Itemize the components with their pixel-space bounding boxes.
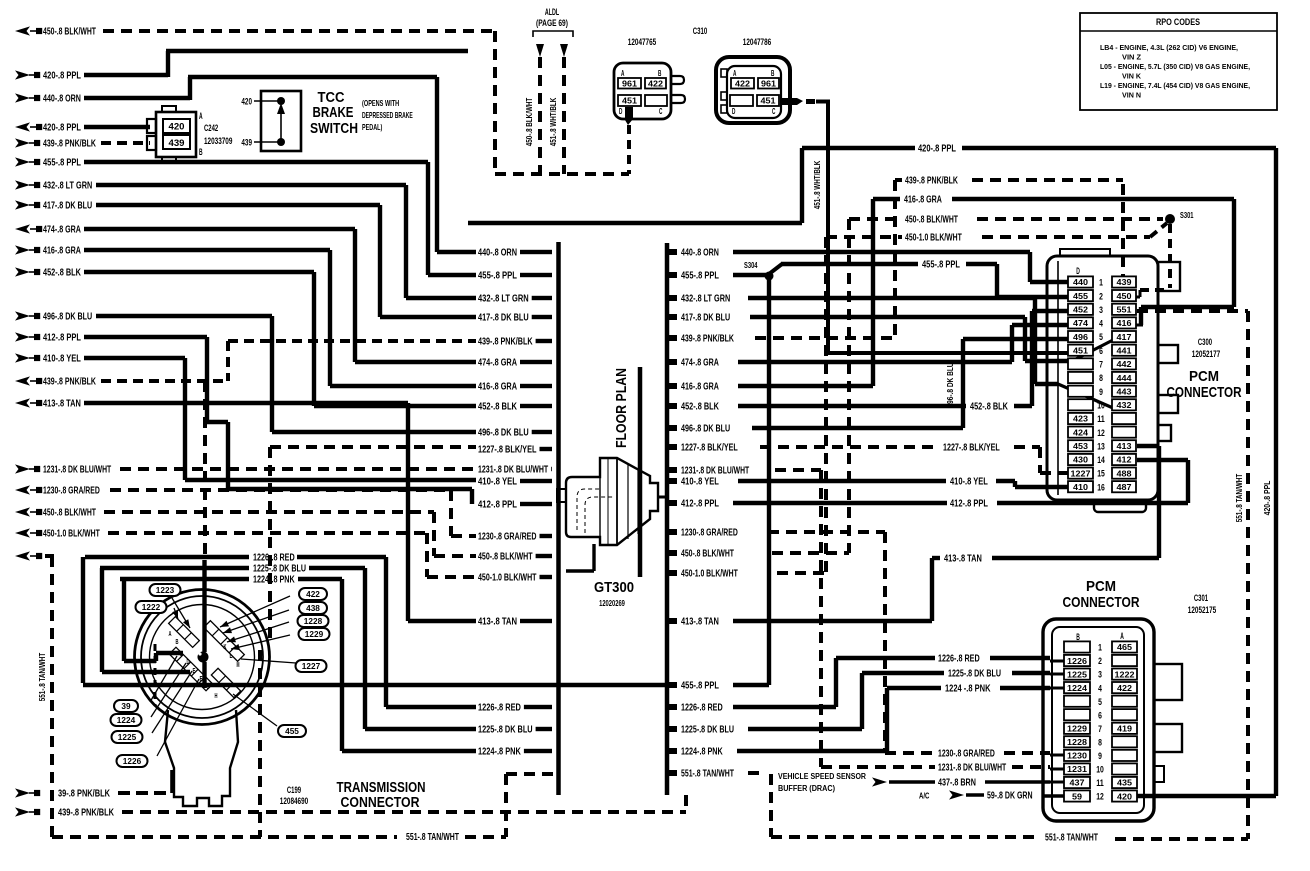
- svg-text:416-.8 GRA: 416-.8 GRA: [681, 382, 719, 393]
- svg-text:474: 474: [1073, 318, 1088, 328]
- svg-text:551: 551: [1117, 305, 1132, 315]
- svg-text:435: 435: [1117, 778, 1132, 788]
- svg-text:1224 -.8 PNK: 1224 -.8 PNK: [945, 684, 991, 695]
- wire 440-.8 ORN left entry: [15, 77, 476, 252]
- left bus label 440-.8 ORN: [478, 248, 552, 259]
- oval 455: [233, 694, 306, 737]
- svg-text:496-.8 DK BLU: 496-.8 DK BLU: [681, 424, 730, 435]
- floor plan divider line: [638, 367, 643, 577]
- svg-text:C301: C301: [1194, 593, 1208, 603]
- svg-text:1222: 1222: [142, 603, 161, 612]
- svg-text:1231-.8 DK BLU/WHT: 1231-.8 DK BLU/WHT: [938, 763, 1006, 774]
- transmission center terminal: [198, 652, 209, 663]
- left bus label 450-.8 BLK/WHT: [478, 552, 552, 563]
- svg-text:450-1.0 BLK/WHT: 450-1.0 BLK/WHT: [905, 233, 962, 244]
- left bus label 1227-.8 BLK/YEL: [478, 445, 552, 456]
- svg-text:1225-.8 DK BLU: 1225-.8 DK BLU: [681, 725, 734, 736]
- wire 474-.8 GRA to C300 pin 4: [738, 325, 1068, 362]
- wire 416-.8 GRA left entry: [15, 245, 476, 386]
- svg-text:420-.8 PPL: 420-.8 PPL: [43, 123, 81, 134]
- transmission connector circles: [135, 590, 270, 725]
- svg-text:455-.8 PPL: 455-.8 PPL: [681, 681, 719, 692]
- svg-text:5: 5: [1098, 697, 1102, 708]
- svg-text:3: 3: [1099, 305, 1103, 316]
- ALDL header and bracket: [533, 7, 573, 37]
- svg-text:12084690: 12084690: [280, 796, 308, 806]
- right bus label 1230-.8 GRA/RED: [669, 528, 738, 539]
- svg-text:1229: 1229: [1067, 724, 1087, 734]
- left harness bus line: [556, 242, 561, 795]
- svg-text:12047786: 12047786: [743, 37, 771, 47]
- wire 452-.8 BLK to C300 pin 3: [738, 311, 1068, 413]
- svg-text:410: 410: [1073, 482, 1088, 492]
- svg-text:TCC: TCC: [318, 90, 345, 106]
- wire A/C to C301 pin 12: [919, 790, 1064, 801]
- svg-text:1231-.8 DK BLU/WHT: 1231-.8 DK BLU/WHT: [43, 465, 111, 476]
- svg-text:A/C: A/C: [919, 791, 929, 801]
- svg-text:2: 2: [1099, 291, 1103, 302]
- svg-text:2: 2: [1098, 656, 1102, 667]
- bottom dashed bus 551-.8 TAN/WHT right segment: [771, 311, 1248, 844]
- svg-text:450-1.0 BLK/WHT: 450-1.0 BLK/WHT: [43, 529, 100, 540]
- wire 474-.8 GRA left entry: [15, 224, 476, 362]
- svg-text:12020269: 12020269: [599, 599, 625, 608]
- svg-text:11: 11: [1097, 414, 1105, 425]
- right bus label 413-.8 TAN: [669, 617, 719, 628]
- svg-text:1231-.8 DK BLU/WHT: 1231-.8 DK BLU/WHT: [478, 465, 548, 476]
- svg-text:432-.8 LT GRN: 432-.8 LT GRN: [681, 294, 730, 305]
- svg-text:452: 452: [1073, 305, 1088, 315]
- svg-text:14: 14: [1097, 455, 1105, 466]
- wire 413-.8 TAN to C300 pin 13R: [733, 446, 1159, 621]
- svg-text:VIN K: VIN K: [1122, 72, 1142, 81]
- svg-text:1224-.8 PNK: 1224-.8 PNK: [681, 747, 723, 758]
- wire 1225-.8 DK BLU to C301 pin 3: [748, 669, 1064, 730]
- wire 452-.8 BLK left entry: [15, 267, 476, 406]
- svg-text:551-.8 TAN/WHT: 551-.8 TAN/WHT: [37, 652, 47, 701]
- svg-text:410-.8 YEL: 410-.8 YEL: [681, 477, 719, 488]
- svg-text:412-.8 PPL: 412-.8 PPL: [681, 499, 719, 510]
- left bus label 410-.8 YEL: [478, 477, 552, 488]
- svg-text:4: 4: [1098, 683, 1102, 694]
- svg-text:455-.8 PPL: 455-.8 PPL: [922, 260, 960, 271]
- right bus label 410-.8 YEL: [669, 477, 719, 488]
- svg-text:440-.8 ORN: 440-.8 ORN: [43, 94, 81, 105]
- svg-text:F: F: [200, 674, 203, 683]
- svg-text:450: 450: [1117, 291, 1132, 301]
- svg-text:12: 12: [1097, 428, 1105, 439]
- right bus label 496-.8 DK BLU: [669, 424, 730, 435]
- wire 39-.8 PNK/BLK bottom entry: [15, 770, 172, 800]
- svg-text:438: 438: [306, 604, 320, 613]
- svg-text:451-.8 WHT/BLK: 451-.8 WHT/BLK: [548, 97, 558, 146]
- wire S301 to C300 pin 2R 450 (dashed): [1136, 224, 1170, 297]
- svg-text:6: 6: [1098, 710, 1102, 721]
- svg-text:450-.8 BLK/WHT: 450-.8 BLK/WHT: [43, 27, 96, 38]
- svg-text:7: 7: [1099, 360, 1103, 371]
- svg-text:410-.8 YEL: 410-.8 YEL: [43, 354, 81, 365]
- oval 39: [114, 656, 177, 712]
- svg-text:PCM: PCM: [1189, 368, 1219, 385]
- svg-text:452-.8 BLK: 452-.8 BLK: [970, 402, 1008, 413]
- left bus label 1230-.8 GRA/RED: [478, 532, 552, 543]
- svg-text:59-.8 DK GRN: 59-.8 DK GRN: [987, 791, 1033, 802]
- svg-text:465: 465: [1117, 642, 1132, 652]
- svg-text:1228: 1228: [1067, 737, 1087, 747]
- svg-text:439-.8 PNK/BLK: 439-.8 PNK/BLK: [905, 176, 958, 187]
- oval 1229: [231, 628, 330, 650]
- svg-text:L19 - ENGINE, 7.4L (454 CID) V: L19 - ENGINE, 7.4L (454 CID) V8 GAS ENGI…: [1100, 81, 1250, 90]
- left bus label 413-.8 TAN: [478, 617, 552, 628]
- svg-text:417: 417: [1117, 332, 1132, 342]
- wire 413-.8 TAN left entry: [15, 398, 476, 621]
- svg-text:488: 488: [1117, 468, 1132, 478]
- svg-text:450-.8 BLK/WHT: 450-.8 BLK/WHT: [905, 215, 958, 226]
- svg-text:474-.8 GRA: 474-.8 GRA: [478, 358, 517, 369]
- GT300 drain wire elbow: [566, 544, 594, 571]
- svg-text:C: C: [772, 106, 775, 116]
- svg-text:GT300: GT300: [594, 580, 634, 596]
- svg-text:961: 961: [761, 80, 776, 89]
- oval 1228: [227, 615, 329, 642]
- svg-text:442: 442: [1117, 359, 1132, 369]
- right bus label 551-.8 TAN/WHT: [669, 769, 734, 780]
- svg-text:M: M: [237, 660, 240, 669]
- svg-text:39: 39: [121, 702, 131, 711]
- ALDL pigtail 450-.8 BLK/WHT (dashed): [536, 44, 544, 174]
- svg-text:439-.8 PNK/BLK: 439-.8 PNK/BLK: [43, 377, 96, 388]
- connector C300 body: [1047, 249, 1180, 512]
- svg-text:13: 13: [1097, 441, 1105, 452]
- splice S301: [1165, 210, 1194, 224]
- svg-text:413-.8 TAN: 413-.8 TAN: [478, 617, 517, 628]
- right bus label 416-.8 GRA: [669, 382, 719, 393]
- wire 1227-.8 BLK/YEL to C300 pin 15 (dashed): [760, 443, 1068, 474]
- svg-text:419: 419: [1117, 724, 1132, 734]
- right bus label 440-.8 ORN: [669, 248, 719, 259]
- svg-text:450-.8 BLK/WHT: 450-.8 BLK/WHT: [524, 97, 534, 146]
- left bus label 496-.8 DK BLU: [478, 428, 552, 439]
- svg-text:440-.8 ORN: 440-.8 ORN: [681, 248, 719, 259]
- svg-text:413-.8 TAN: 413-.8 TAN: [681, 617, 719, 628]
- svg-text:1226: 1226: [123, 757, 142, 766]
- svg-text:D: D: [187, 657, 190, 666]
- TCC brake switch: [241, 91, 301, 151]
- oval 1227: [241, 659, 327, 672]
- wire S304 drop to 455 row: [767, 278, 771, 685]
- left bus label 1224-.8 PNK: [478, 747, 552, 758]
- svg-text:1224: 1224: [1067, 683, 1087, 693]
- svg-text:PEDAL): PEDAL): [362, 122, 382, 132]
- dashed hint inside transmission: [154, 644, 157, 706]
- label C199 12084690: [280, 785, 308, 806]
- left bus label 450-1.0 BLK/WHT: [478, 573, 552, 584]
- wire 496-.8 DK BLU left entry: [15, 311, 476, 432]
- svg-text:410-.8 YEL: 410-.8 YEL: [950, 477, 988, 488]
- svg-text:C310: C310: [693, 26, 708, 36]
- right bus label 1225-.8 DK BLU: [669, 725, 734, 736]
- svg-text:1227-.8 BLK/YEL: 1227-.8 BLK/YEL: [478, 445, 537, 456]
- svg-text:6: 6: [1099, 346, 1103, 357]
- svg-text:1225-.8 DK BLU: 1225-.8 DK BLU: [253, 564, 306, 575]
- wire 1230-.8 GRA/RED down to C301 pin 9 (dashed): [768, 532, 1064, 760]
- svg-text:417-.8 DK BLU: 417-.8 DK BLU: [478, 313, 529, 324]
- svg-text:1226: 1226: [1067, 656, 1087, 666]
- label GT300 12020269: [594, 580, 634, 608]
- svg-text:E: E: [193, 666, 196, 675]
- svg-text:1230: 1230: [1067, 751, 1087, 761]
- svg-text:420: 420: [1117, 791, 1132, 801]
- transmission pin strip A-B: [169, 617, 200, 648]
- svg-text:455: 455: [1073, 291, 1088, 301]
- svg-text:453: 453: [1073, 441, 1088, 451]
- svg-text:12047765: 12047765: [628, 37, 656, 47]
- svg-text:451: 451: [622, 97, 637, 106]
- wire 496-.8 DK BLU to C300 pin 5: [752, 339, 1068, 428]
- svg-text:422: 422: [306, 590, 320, 599]
- svg-text:961: 961: [622, 80, 637, 89]
- wire 439-.8 PNK/BLK bottom entry (dashed): [15, 795, 686, 819]
- svg-text:8: 8: [1099, 373, 1103, 384]
- wire 420-.8 PPL left entry: [15, 51, 468, 82]
- svg-text:FLOOR PLAN: FLOOR PLAN: [613, 368, 630, 448]
- svg-text:10: 10: [1097, 400, 1105, 411]
- left bus label 1226-.8 RED: [478, 703, 552, 714]
- svg-text:1227: 1227: [1071, 468, 1091, 478]
- svg-text:417-.8 DK BLU: 417-.8 DK BLU: [681, 313, 730, 324]
- wire 410-.8 YEL left entry: [15, 353, 476, 480]
- svg-text:B: B: [176, 637, 179, 646]
- svg-text:16: 16: [1097, 482, 1105, 493]
- svg-text:416: 416: [1117, 318, 1132, 328]
- svg-text:K: K: [224, 642, 227, 651]
- left bus label 417-.8 DK BLU: [478, 313, 552, 324]
- svg-text:443: 443: [1117, 386, 1132, 396]
- svg-text:1225-.8 DK BLU: 1225-.8 DK BLU: [478, 725, 533, 736]
- svg-text:12033709: 12033709: [204, 136, 232, 146]
- svg-text:437-.8 BRN: 437-.8 BRN: [938, 778, 976, 789]
- wire 551-.8 TAN/WHT to bottom bus (dashed): [748, 773, 771, 837]
- svg-text:1228: 1228: [304, 617, 323, 626]
- svg-text:412-.8 PPL: 412-.8 PPL: [950, 499, 988, 510]
- left bus label 455-.8 PPL: [478, 271, 552, 282]
- svg-text:1227-.8 BLK/YEL: 1227-.8 BLK/YEL: [681, 443, 738, 454]
- right bus label 1224-.8 PNK: [669, 747, 723, 758]
- svg-text:496-.8 DK BLU: 496-.8 DK BLU: [43, 312, 92, 323]
- label TRANSMISSION CONNECTOR: [337, 780, 426, 811]
- bottom dashed bus 551-.8 TAN/WHT left segment: [52, 774, 556, 843]
- svg-text:1230-.8 GRA/RED: 1230-.8 GRA/RED: [938, 749, 995, 760]
- svg-text:B: B: [771, 68, 774, 78]
- svg-text:1227: 1227: [302, 662, 321, 671]
- oval 1222: [136, 601, 179, 619]
- wire 410-.8 YEL to C300 pin 16: [738, 477, 1068, 488]
- svg-text:A: A: [199, 111, 203, 121]
- right bus label 417-.8 DK BLU: [669, 313, 730, 324]
- svg-text:420: 420: [241, 97, 252, 107]
- transmission pin strip K-L-M: [204, 621, 245, 662]
- connector C301 pin rows: [1064, 641, 1137, 802]
- svg-text:C300: C300: [1198, 337, 1212, 347]
- right bus label 474-.8 GRA: [669, 358, 719, 369]
- svg-text:439: 439: [1117, 277, 1132, 287]
- transmission connector bell body: [165, 710, 238, 806]
- wire 439-.8 PNK/BLK left entry (dashed): [15, 341, 476, 388]
- wire 450-.8 BLK/WHT left entry (dashed): [15, 507, 476, 556]
- svg-text:BUFFER (DRAC): BUFFER (DRAC): [778, 783, 835, 793]
- svg-text:444: 444: [1117, 373, 1132, 383]
- wire 1230-.8 GRA/RED left entry (dashed): [15, 485, 476, 536]
- label (OPENS WITH DEPRESSED BRAKE PEDAL): [362, 98, 413, 132]
- svg-text:422: 422: [1117, 683, 1132, 693]
- wire 1231-.8 DK BLU/WHT left entry (dashed): [15, 464, 476, 475]
- svg-text:RPO CODES: RPO CODES: [1156, 17, 1200, 27]
- svg-text:S301: S301: [1180, 210, 1194, 220]
- right bus label 452-.8 BLK: [669, 402, 719, 413]
- wire 417-.8 DK BLU to C300 diag pin 5R 417: [750, 317, 1113, 361]
- svg-text:412-.8 PPL: 412-.8 PPL: [43, 333, 81, 344]
- left bus label 1231-.8 DK BLU/WHT: [478, 465, 552, 476]
- svg-text:S304: S304: [744, 260, 758, 270]
- svg-text:437: 437: [1070, 778, 1085, 788]
- connector 12047786: [716, 37, 815, 123]
- wire 1225-.8 DK BLU hook: [100, 564, 476, 730]
- right bus label 450-.8 BLK/WHT: [669, 549, 734, 560]
- svg-text:455-.8 PPL: 455-.8 PPL: [681, 271, 719, 282]
- svg-text:450-.8 BLK/WHT: 450-.8 BLK/WHT: [681, 549, 734, 560]
- svg-text:439-.8 PNK/BLK: 439-.8 PNK/BLK: [58, 808, 114, 819]
- svg-text:CONNECTOR: CONNECTOR: [1063, 594, 1140, 611]
- svg-text:B: B: [658, 68, 661, 78]
- wire 432-.8 LT GRN to C300 diag pin 10R 432: [748, 298, 1113, 408]
- wire drop into transmission center: [202, 381, 207, 688]
- wire 439-.8 PNK/BLK to C242 pin 439 (dashed): [15, 138, 150, 149]
- svg-text:VIN N: VIN N: [1122, 91, 1141, 100]
- splice S304 and wire 455-.8 PPL to C300 pin 2: [733, 260, 1068, 298]
- svg-text:D: D: [619, 106, 622, 116]
- svg-text:1225: 1225: [118, 733, 137, 742]
- svg-text:450-1.0 BLK/WHT: 450-1.0 BLK/WHT: [478, 573, 537, 584]
- svg-text:413-.8 TAN: 413-.8 TAN: [43, 399, 81, 410]
- svg-text:12052175: 12052175: [1188, 605, 1216, 615]
- svg-text:9: 9: [1098, 751, 1102, 762]
- svg-text:1231-.8 DK BLU/WHT: 1231-.8 DK BLU/WHT: [681, 466, 749, 477]
- svg-text:423: 423: [1073, 414, 1088, 424]
- svg-text:432: 432: [1117, 400, 1132, 410]
- svg-text:39-.8 PNK/BLK: 39-.8 PNK/BLK: [58, 789, 110, 800]
- right bus label 455-.8 PPL: [669, 271, 719, 282]
- svg-text:452-.8 BLK: 452-.8 BLK: [681, 402, 719, 413]
- wire 412-.8 PPL to C300 pin 14R: [733, 460, 1188, 510]
- svg-text:450-.8 BLK/WHT: 450-.8 BLK/WHT: [43, 508, 96, 519]
- svg-text:H: H: [215, 691, 218, 700]
- ALDL pigtail 451-.8 WHT/BLK (dashed): [560, 44, 568, 174]
- oval 1223: [150, 584, 191, 628]
- svg-text:551-.8 TAN/WHT: 551-.8 TAN/WHT: [406, 832, 459, 843]
- svg-text:1226-.8 RED: 1226-.8 RED: [681, 703, 723, 714]
- svg-text:439-.8 PNK/BLK: 439-.8 PNK/BLK: [43, 139, 96, 150]
- svg-text:551-.8 TAN/WHT: 551-.8 TAN/WHT: [681, 769, 734, 780]
- svg-text:3: 3: [1098, 670, 1102, 681]
- right bus label 1226-.8 RED: [669, 703, 723, 714]
- svg-text:LB4 - ENGINE, 4.3L (262 CID) V: LB4 - ENGINE, 4.3L (262 CID) V6 ENGINE,: [1100, 43, 1238, 52]
- svg-text:420-.8 PPL: 420-.8 PPL: [43, 71, 81, 82]
- svg-text:451-.8 WHT/BLK: 451-.8 WHT/BLK: [812, 160, 822, 209]
- wire 450-.8 BLK/WHT left entry (dashed): [15, 26, 495, 37]
- svg-text:1230-.8 GRA/RED: 1230-.8 GRA/RED: [681, 528, 738, 539]
- svg-text:(PAGE 69): (PAGE 69): [536, 18, 568, 28]
- wire 1224-.8 PNK to C301 pin 4: [737, 684, 1064, 752]
- svg-text:424: 424: [1073, 427, 1088, 437]
- svg-text:551-.8 TAN/WHT: 551-.8 TAN/WHT: [1234, 473, 1244, 522]
- svg-text:455-.8 PPL: 455-.8 PPL: [478, 271, 517, 282]
- svg-text:1225-.8 DK BLU: 1225-.8 DK BLU: [948, 669, 1001, 680]
- svg-text:455: 455: [285, 727, 299, 736]
- svg-text:VEHICLE SPEED SENSOR: VEHICLE SPEED SENSOR: [778, 771, 867, 781]
- svg-text:1224-.8 PNK: 1224-.8 PNK: [253, 575, 295, 586]
- svg-text:1231: 1231: [1067, 764, 1087, 774]
- wire 450-1.0 BLK/WHT left entry (dashed): [15, 528, 476, 577]
- wire 432-.8 LT GRN left entry: [15, 180, 476, 298]
- wire 1231-.8 DK BLU/WHT down to C301 pin 10 (dashed): [775, 470, 1064, 774]
- svg-text:15: 15: [1097, 469, 1105, 480]
- left bus label 1225-.8 DK BLU: [478, 725, 552, 736]
- right bus label 439-.8 PNK/BLK: [669, 334, 734, 345]
- svg-text:455-.8 PPL: 455-.8 PPL: [43, 158, 81, 169]
- svg-text:452-.8 BLK: 452-.8 BLK: [478, 402, 517, 413]
- left bus label 416-.8 GRA: [478, 382, 552, 393]
- svg-text:A: A: [621, 68, 624, 78]
- svg-text:452-.8 BLK: 452-.8 BLK: [43, 268, 81, 279]
- svg-text:1227-.8 BLK/YEL: 1227-.8 BLK/YEL: [943, 443, 1000, 454]
- svg-text:C: C: [659, 106, 662, 116]
- wire 451-.8 WHT/BLK vertical from C310 to pin 6L C300: [816, 101, 1068, 353]
- wire 417-.8 DK BLU left entry: [15, 200, 476, 317]
- svg-text:432-.8 LT GRN: 432-.8 LT GRN: [43, 181, 92, 192]
- svg-text:1224-.8 PNK: 1224-.8 PNK: [478, 747, 521, 758]
- svg-text:496-.8 DK BLU: 496-.8 DK BLU: [478, 428, 529, 439]
- connector C300 pin rows: [1068, 276, 1136, 493]
- svg-text:551-.8 TAN/WHT: 551-.8 TAN/WHT: [1045, 833, 1098, 844]
- svg-text:VIN Z: VIN Z: [1122, 53, 1141, 62]
- svg-text:451: 451: [1073, 345, 1088, 355]
- svg-text:12052177: 12052177: [1192, 349, 1220, 359]
- svg-text:L: L: [230, 651, 233, 660]
- label PCM CONNECTOR C301: [1063, 578, 1140, 611]
- connector 12047765: [614, 37, 685, 125]
- connector C301 body: [1043, 619, 1182, 821]
- left bus label 474-.8 GRA: [478, 358, 552, 369]
- svg-text:422: 422: [648, 80, 663, 89]
- svg-text:416-.8 GRA: 416-.8 GRA: [43, 246, 81, 257]
- oval 438: [223, 602, 327, 633]
- svg-text:1226-.8 RED: 1226-.8 RED: [478, 703, 521, 714]
- svg-text:1226-.8 RED: 1226-.8 RED: [253, 553, 295, 564]
- svg-text:7: 7: [1098, 724, 1102, 735]
- wire 450-1.0 BLK/WHT up to splice S301 (dashed): [777, 223, 1167, 573]
- svg-text:1226-.8 RED: 1226-.8 RED: [938, 654, 980, 665]
- svg-text:ALDL: ALDL: [545, 7, 560, 17]
- svg-text:CONNECTOR: CONNECTOR: [1167, 384, 1242, 401]
- dashed drop right of transmission: [258, 650, 262, 837]
- label PCM CONNECTOR C300: [1167, 368, 1242, 401]
- transmission pin strip C-H: [169, 647, 212, 690]
- wire 1227-.8 BLK/YEL left of bus (dashed): [270, 447, 476, 640]
- connector C242 12033709: [147, 106, 232, 163]
- svg-text:11: 11: [1096, 778, 1104, 789]
- right bus label 412-.8 PPL: [669, 499, 719, 510]
- wire 455-.8 PPL left entry: [15, 157, 476, 275]
